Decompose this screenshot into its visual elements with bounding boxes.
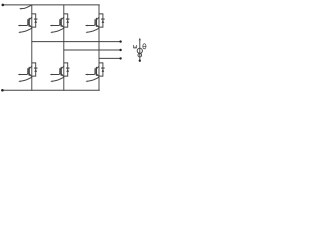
emitter lead of Q1 xyxy=(18,28,32,33)
transistor Q3 xyxy=(60,17,64,27)
motor body circle xyxy=(137,48,142,53)
transistor Q4 xyxy=(60,66,64,76)
transistor Q2 xyxy=(28,66,32,76)
emitter lead of Q4 xyxy=(50,77,64,82)
node dot: shaft bottom xyxy=(139,60,141,62)
terminal dot: DC- input xyxy=(1,89,4,92)
motor shaft line with position arrow xyxy=(139,38,141,61)
emitter lead of Q3 xyxy=(50,28,64,33)
gate lead of Q5 xyxy=(85,25,95,27)
gate lead of Q6 xyxy=(85,74,95,76)
label: omega xyxy=(133,45,136,48)
wire: inverter leg 1 xyxy=(31,5,33,90)
node dot: phase a xyxy=(119,40,121,42)
terminal dot: DC+ input xyxy=(2,4,5,7)
wire: phase a output line xyxy=(32,41,121,43)
gate lead of Q1 xyxy=(18,25,28,27)
diode D4 xyxy=(64,63,69,76)
label: theta xyxy=(143,44,146,49)
transistor Q5 xyxy=(95,17,99,27)
diode D2 xyxy=(32,63,37,76)
gate lead of Q3 xyxy=(50,25,60,27)
gate lead of Q2 xyxy=(18,74,28,76)
diode D1 xyxy=(32,14,37,27)
wire: phase b output line xyxy=(64,49,121,51)
wire: inverter leg 3 xyxy=(98,5,100,90)
emitter lead of Q6 xyxy=(86,77,100,82)
wire: negative DC bus xyxy=(2,89,99,91)
node dot: phase b xyxy=(119,49,121,51)
encoder circle xyxy=(138,53,142,57)
diode D3 xyxy=(64,14,69,27)
transistor Q6 xyxy=(95,66,99,76)
transistor Q1 xyxy=(28,17,32,27)
node dot: phase c xyxy=(119,57,121,59)
collector lead arrow of Q1 (hook from DC+ bus) xyxy=(19,5,32,10)
wire: inverter leg 2 xyxy=(63,5,65,90)
emitter lead of Q5 xyxy=(86,28,100,33)
gate lead of Q4 xyxy=(50,74,60,76)
diode D5 xyxy=(99,14,104,27)
wire: positive DC bus xyxy=(3,4,100,6)
wire: phase c output line xyxy=(99,57,121,59)
emitter lead of Q2 xyxy=(18,77,32,82)
diode D6 xyxy=(99,63,104,76)
